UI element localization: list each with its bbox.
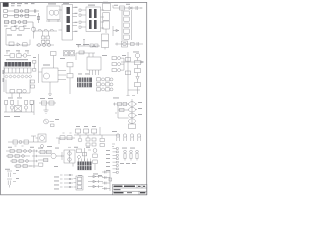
wire loop mains input <box>6 27 34 45</box>
wire harness above U4 <box>76 51 95 61</box>
resistor R13 chain right of M1 <box>56 133 75 144</box>
resistor R19 <box>10 150 14 153</box>
resistor pair R5 (far right of U1 area) <box>31 80 35 88</box>
connector J6 (dense comb bottom) <box>78 159 92 171</box>
transformer T3 (main power transformer, double-bar core) <box>79 7 104 32</box>
row 2 wire <box>6 155 30 157</box>
fuse F1 under badge <box>6 27 30 30</box>
header note row <box>11 3 35 6</box>
resistor R7 <box>67 74 73 95</box>
wire top feed <box>113 5 142 8</box>
resistor R29 <box>44 159 48 162</box>
IC U4 (small DIP box) <box>87 57 101 75</box>
ground GND1 <box>48 94 52 96</box>
corner content (top-left of sheet) <box>3 3 40 28</box>
resistor R21 <box>8 155 12 158</box>
resistor R14 on bus <box>76 129 81 133</box>
connector J2 (dense comb) <box>77 51 92 87</box>
title block text <box>114 186 146 194</box>
electrolytic cap C18 <box>7 179 16 188</box>
capacitor C14 <box>29 150 32 153</box>
jack field J4 (right block rows) <box>112 57 124 72</box>
resistor R12 <box>135 83 141 95</box>
node stub bottom left of quadrant <box>112 144 115 147</box>
capacitor CX1 <box>9 42 14 46</box>
diode pair D4 (right of U1) <box>33 61 36 72</box>
capacitor C7 <box>10 101 13 113</box>
row 4 wire <box>14 165 32 167</box>
motor M1 (boxed circle bottom) <box>36 134 47 148</box>
varistor RV1 <box>31 27 35 39</box>
optocoupler U2 (bottom right cluster) <box>115 41 143 47</box>
junction marks bottom of riser <box>127 90 141 96</box>
power bus lower middle <box>74 127 120 135</box>
transformer T2 (multi-winding, tall box) <box>59 5 78 41</box>
title block <box>113 185 147 195</box>
snubber row under T3 <box>77 40 100 48</box>
resistor R27 <box>40 150 45 154</box>
capacitor ladder C19 <box>102 170 112 191</box>
op-amp stage (bottom mid-left) <box>38 152 51 160</box>
IC U1 (main controller with pin rows) <box>5 62 32 73</box>
diode D2 on top feed <box>129 7 132 10</box>
resistor R25 <box>16 165 20 168</box>
resistor R28 <box>47 150 52 154</box>
node stub left <box>113 26 119 36</box>
capacitor C13 <box>24 150 27 153</box>
component value labels (unreadable speckle text) <box>3 2 142 190</box>
connector J1 (row of diamond pads under U1) <box>5 75 32 78</box>
capacitor grid CX2 <box>42 36 50 43</box>
terminal block TB1 (outline with 3 cells) <box>74 176 84 190</box>
resistor R1 on top feed <box>120 6 125 10</box>
rectifier bridge D1 (stacked cells right of T3) <box>103 4 111 34</box>
resistor R8 on riser <box>125 58 130 62</box>
capacitor C4 above U3 <box>51 52 57 69</box>
transistor Q6 <box>51 152 62 160</box>
pump valve row (bottom of left quadrant) <box>8 136 38 146</box>
transistor row Q1-Q4 (bottom right quadrant) <box>116 134 140 141</box>
relay row K1 (upper mid-left) <box>4 52 31 58</box>
logic cluster rows (bottom left) <box>6 149 38 168</box>
resistor R4 <box>17 90 22 93</box>
sheet border frame <box>1 2 147 194</box>
RC pair upper mid (x 38-56 y 100) <box>39 101 56 110</box>
resistor R3 <box>10 90 15 93</box>
electrolytic cap C17 (bottom far left) <box>7 171 16 177</box>
switch row <box>4 13 40 28</box>
wire drops below <box>12 93 20 97</box>
capacitor C16 <box>26 160 29 163</box>
zener chain D7 <box>93 149 97 170</box>
resistor R2 <box>23 43 28 46</box>
relay K2 (box with two contact circles) <box>61 147 75 166</box>
capacitor C9 <box>30 101 33 113</box>
transformer T1 (line input, box with two circles) <box>46 6 61 22</box>
input filter row 1 <box>12 9 39 13</box>
filter bank row (top of lower-left quadrant) <box>4 100 34 115</box>
regulator ladder VR1 (column of cells) <box>122 10 132 40</box>
resistor R23 <box>12 160 16 163</box>
fuse trio F2 F3 F4 <box>124 150 139 160</box>
diode row group D8 <box>88 175 103 188</box>
wire loop under J1 <box>4 67 30 94</box>
inductor L1 row <box>34 29 57 36</box>
row 3 wire <box>10 160 30 162</box>
resistor R9 on riser <box>125 71 130 75</box>
capacitor C8 <box>24 101 27 113</box>
resistor R26 <box>23 165 27 168</box>
wire bus middle right <box>121 52 144 95</box>
capacitor C6 <box>5 101 8 113</box>
choke row L2 <box>36 44 54 47</box>
transistor array ladder Q7 (right column ovals) <box>128 99 138 129</box>
diode D5 <box>136 77 139 83</box>
input filter row 2 <box>12 14 36 17</box>
cap pair C12 below bus <box>100 135 104 147</box>
capacitor bank C1 (stacked cells lower) <box>102 34 109 50</box>
output chain right: capacitor C5 <box>135 53 139 60</box>
page background <box>0 0 149 198</box>
ground GND2 <box>44 110 49 114</box>
crystal Y1 (box with cross) <box>15 100 22 112</box>
capacitor C3 <box>23 89 27 93</box>
capacitor C15 <box>22 155 25 158</box>
resistor R20 <box>17 150 21 153</box>
diode D3 <box>17 43 20 46</box>
cap pair C11 below bus <box>86 135 96 146</box>
input network to ladder <box>113 102 129 118</box>
resistor R22 <box>15 155 19 158</box>
LED pair DS1 <box>64 51 75 56</box>
resistor R24 <box>19 160 23 163</box>
thermistor RT1 (circle with mark) <box>44 119 54 127</box>
jack field J3 (rows of rect+circle right of J2) <box>97 78 114 91</box>
resistor R16 on bus <box>92 129 97 133</box>
pin list J7 (right edge column) <box>113 148 119 174</box>
capacitor C2 top right <box>136 6 143 10</box>
capacitor C10 below bus <box>78 135 82 142</box>
corner labels <box>4 25 27 28</box>
resistor R15 on bus <box>84 129 89 133</box>
logo block <box>3 3 9 7</box>
resistor R6 <box>67 63 73 74</box>
resistor R30 <box>39 163 43 166</box>
connector stub list J5 <box>60 174 73 188</box>
sensor cluster top of bottom-mid <box>77 148 92 161</box>
resistor R11 <box>135 69 141 77</box>
input terminal block <box>4 10 12 18</box>
resistor R10 <box>135 61 141 69</box>
regulator U3 (box with transistor circle) <box>39 54 67 94</box>
